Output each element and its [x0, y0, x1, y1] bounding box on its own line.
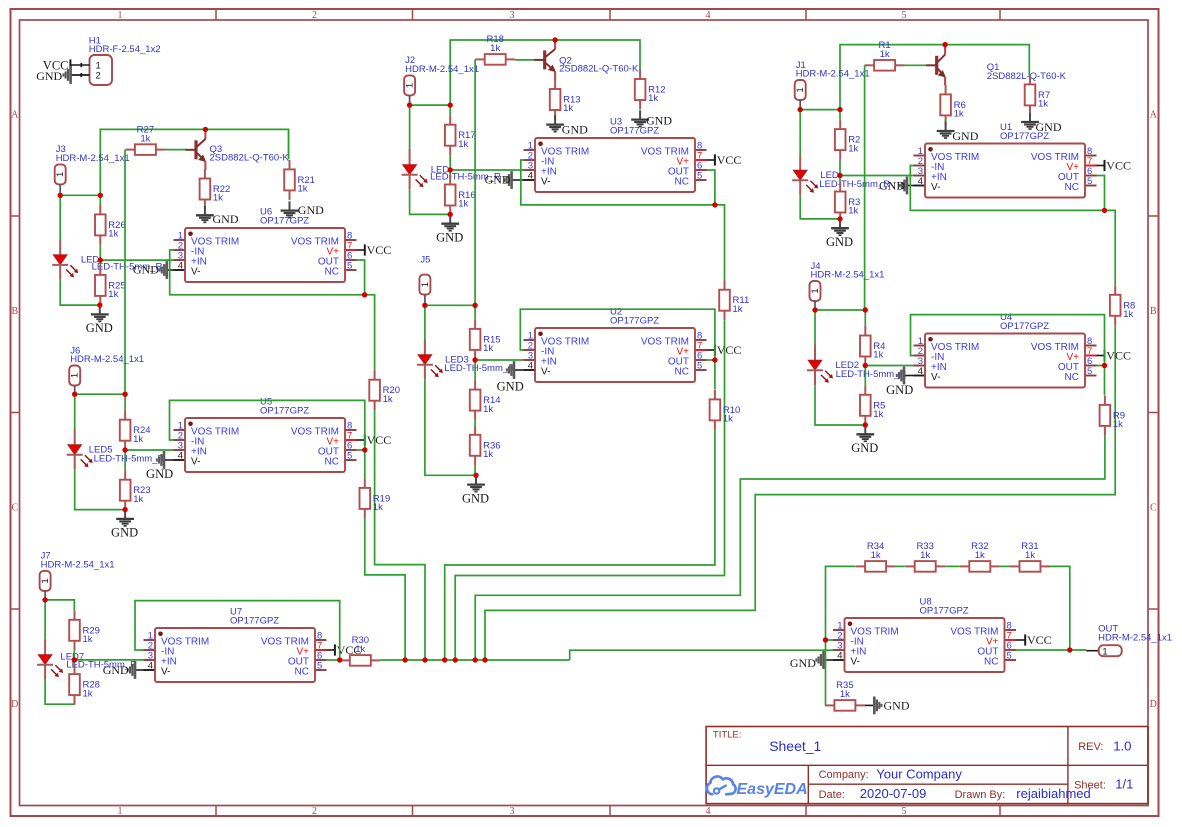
svg-text:5: 5 — [902, 806, 907, 817]
svg-text:HDR-M-2.54_1x1: HDR-M-2.54_1x1 — [70, 354, 144, 365]
resistor R31 — [1010, 541, 1050, 572]
svg-text:GND: GND — [886, 383, 913, 397]
svg-text:1: 1 — [118, 10, 123, 21]
svg-text:1k: 1k — [840, 689, 850, 700]
svg-text:1k: 1k — [213, 193, 223, 204]
GND symbol at H1 — [36, 66, 89, 84]
wire R27 to Q3 base — [165, 149, 186, 151]
svg-text:1: 1 — [810, 288, 821, 293]
resistor R26 — [95, 205, 126, 245]
svg-text:GND: GND — [86, 321, 113, 335]
wire R11 to bus — [455, 320, 724, 660]
resistor R30 — [340, 635, 380, 666]
svg-text:1k: 1k — [483, 404, 493, 415]
svg-text:2SD882L-Q-T60-K: 2SD882L-Q-T60-K — [987, 71, 1067, 82]
wire J2 row — [410, 104, 451, 106]
header J7 — [40, 551, 115, 591]
wire J1 row — [800, 109, 840, 111]
wire U1 out to R8 — [1105, 210, 1116, 285]
svg-text:V-: V- — [191, 457, 200, 468]
wire LED3 cathode loop — [425, 380, 476, 476]
wire R24 to LED5 junction gap — [124, 450, 126, 470]
svg-text:1: 1 — [118, 806, 123, 817]
svg-text:5: 5 — [347, 261, 352, 272]
node rail-Q1 collector junction — [942, 42, 947, 47]
wire R35 from pin2 — [825, 640, 827, 705]
svg-text:1k: 1k — [648, 93, 658, 104]
svg-text:GND: GND — [952, 129, 978, 143]
svg-text:HDR-M-2.54_1x1: HDR-M-2.54_1x1 — [405, 64, 479, 75]
svg-text:5: 5 — [1007, 651, 1012, 662]
company text — [819, 766, 963, 781]
wire R17 top — [449, 105, 451, 115]
wire LED6 anode — [59, 195, 61, 239]
svg-text:OP177GPZ: OP177GPZ — [230, 616, 279, 627]
VCC at U8 pin 7 — [1016, 633, 1052, 647]
svg-text:1k: 1k — [1025, 550, 1035, 561]
node U2 out junction — [712, 357, 717, 362]
svg-text:NC: NC — [325, 267, 339, 278]
transistor Q1 — [926, 45, 1066, 86]
resistor R17 — [445, 115, 476, 155]
node bus junction 5 — [473, 657, 478, 662]
svg-text:HDR-M-2.54_1x1: HDR-M-2.54_1x1 — [796, 69, 870, 80]
wire chain right leg to U8 out — [1050, 566, 1070, 650]
node LED5 junction — [122, 447, 127, 452]
svg-text:V-: V- — [161, 667, 170, 678]
sheet text — [1074, 777, 1133, 792]
wire U3 out to R11 — [715, 205, 725, 280]
svg-text:4: 4 — [918, 176, 923, 187]
svg-text:1: 1 — [55, 172, 66, 177]
node J6 junction — [72, 392, 77, 397]
svg-text:GND: GND — [884, 698, 910, 712]
node bus junction 4 — [453, 657, 458, 662]
ground below R7 — [1021, 113, 1062, 134]
svg-text:rejaibiahmed: rejaibiahmed — [1016, 786, 1090, 801]
svg-text:4: 4 — [706, 806, 711, 817]
wire LED7 junction to R28 — [73, 660, 75, 665]
wire R29 to LED7 junction — [73, 650, 75, 660]
svg-text:5: 5 — [1087, 366, 1092, 377]
wire J3 to R26 — [99, 195, 101, 205]
wire U8 out — [1016, 649, 1086, 651]
node bus junction 2 — [422, 657, 427, 662]
ground below R13 — [546, 115, 588, 136]
svg-text:1k: 1k — [373, 502, 383, 513]
svg-text:D: D — [11, 699, 18, 710]
resistor R10 — [710, 390, 741, 430]
wire J5 row — [425, 304, 475, 306]
svg-text:1k: 1k — [871, 550, 881, 561]
svg-text:1k: 1k — [975, 550, 985, 561]
svg-text:1: 1 — [405, 83, 416, 88]
svg-text:4: 4 — [837, 651, 842, 662]
wire U7 feedback — [135, 601, 340, 660]
resistor R27 — [125, 124, 165, 155]
svg-text:1k: 1k — [873, 409, 883, 420]
svg-text:VCC: VCC — [717, 343, 742, 357]
svg-text:NC: NC — [984, 657, 998, 668]
wire LED2 anode — [814, 310, 816, 345]
svg-text:VCC: VCC — [1027, 633, 1052, 647]
svg-text:GND: GND — [133, 263, 159, 277]
wire J6 pin — [74, 386, 76, 395]
ground below R36 — [462, 475, 489, 505]
wire J4 pin — [814, 301, 816, 310]
svg-text:OP177GPZ: OP177GPZ — [920, 606, 969, 617]
svg-text:5: 5 — [697, 171, 702, 182]
svg-text:1k: 1k — [383, 394, 393, 405]
wire U4 feedback — [911, 315, 1105, 366]
wire R36 to bottom junction — [474, 465, 477, 475]
wire U8 pin2 — [826, 639, 834, 641]
wire LED1 cathode loop — [800, 195, 840, 219]
frame column ticks top — [216, 9, 1000, 20]
wire LED4 cathode loop — [410, 190, 451, 215]
wire LED1 anode — [799, 110, 801, 155]
svg-text:5: 5 — [1087, 176, 1092, 187]
svg-text:1.0: 1.0 — [1113, 738, 1131, 753]
wire LED4 junction to U3 pin3 — [450, 169, 523, 171]
wire J5 pin — [424, 295, 426, 306]
wire J2 pin — [409, 95, 411, 105]
svg-text:NC: NC — [1065, 182, 1079, 193]
svg-text:1k: 1k — [954, 109, 964, 120]
op-amp U6 — [174, 206, 357, 282]
svg-text:VCC: VCC — [1106, 159, 1131, 173]
resistor R14 — [470, 380, 501, 420]
op-amp U8 — [833, 596, 1016, 672]
svg-text:3: 3 — [510, 10, 515, 21]
VCC at U2 pin 7 — [707, 343, 742, 357]
title block frame — [706, 727, 1148, 804]
svg-text:Company:: Company: — [819, 769, 869, 781]
frame row ticks left — [11, 216, 20, 609]
svg-text:HDR-F-2.54_1x2: HDR-F-2.54_1x2 — [89, 44, 161, 55]
svg-text:VCC: VCC — [717, 153, 742, 167]
wire R17 to LED4 junction — [449, 155, 451, 170]
svg-text:B: B — [11, 306, 18, 317]
resistor R35 — [825, 680, 865, 711]
ground at U1 pin 4 — [879, 177, 914, 195]
svg-text:GND: GND — [851, 441, 878, 455]
wire R6 to ground — [945, 120, 947, 126]
svg-text:1: 1 — [70, 373, 81, 378]
header J5 — [419, 254, 431, 294]
node J5 R15 junction — [472, 303, 477, 308]
ground at U4 pin 4 — [886, 367, 913, 397]
wire LED6 junction to U6 pin3 — [100, 259, 173, 261]
LED LED4 — [402, 149, 501, 190]
svg-text:OP177GPZ: OP177GPZ — [610, 126, 659, 137]
wire LED2 junction to U4 pin3 — [865, 365, 913, 367]
svg-text:1k: 1k — [848, 206, 858, 217]
node J7 junction — [42, 597, 47, 602]
op-amp U3 — [524, 116, 707, 192]
svg-text:GND: GND — [462, 491, 489, 505]
svg-text:1: 1 — [420, 282, 431, 287]
node J1 junction — [798, 107, 803, 112]
ground below R6 — [937, 122, 979, 143]
wire R32 to R31 — [1000, 565, 1010, 567]
wire J7 to R29 — [45, 600, 74, 610]
wire R14 to R36 — [474, 420, 476, 425]
svg-text:NC: NC — [675, 177, 689, 188]
wire R34 to R33 — [896, 565, 905, 567]
wire U8 feedback chain left leg — [826, 566, 856, 640]
frame column ticks bottom — [216, 806, 1000, 817]
svg-text:1k: 1k — [723, 414, 733, 425]
svg-text:1k: 1k — [133, 494, 143, 505]
svg-text:V-: V- — [931, 182, 940, 193]
LED LED3 — [417, 339, 515, 380]
wire U6 out to R20 chain — [365, 295, 375, 370]
svg-text:1k: 1k — [83, 634, 93, 645]
op-amp U4 — [914, 312, 1097, 388]
svg-text:OP177GPZ: OP177GPZ — [1000, 321, 1049, 332]
resistor R12 — [635, 70, 666, 110]
svg-text:OP177GPZ: OP177GPZ — [260, 406, 309, 417]
svg-text:LED-TH-5mm_R: LED-TH-5mm_R — [94, 454, 165, 465]
ground at U3 pin 4 — [485, 171, 524, 189]
node R25 bottom junction — [97, 302, 102, 307]
rev text — [1078, 738, 1131, 753]
svg-text:D: D — [1150, 699, 1157, 710]
svg-text:3: 3 — [510, 806, 515, 817]
wire U3 feedback — [521, 160, 715, 205]
LED LED7 — [37, 639, 137, 680]
svg-text:1: 1 — [1102, 646, 1107, 657]
ground below R16 — [436, 214, 463, 244]
node J3 rail junction — [98, 193, 103, 198]
op-amp U7 — [144, 606, 327, 682]
transistor Q3 — [186, 129, 290, 169]
resistor R24 — [120, 410, 151, 450]
svg-text:1k: 1k — [848, 143, 858, 154]
wire U4 out to R9 — [1104, 366, 1106, 395]
svg-text:2: 2 — [96, 71, 101, 82]
svg-text:NC: NC — [675, 367, 689, 378]
node rail-Q2 collector junction — [552, 37, 557, 42]
node R5 bottom junction — [863, 422, 868, 427]
svg-text:1k: 1k — [880, 49, 890, 60]
node U8 out junction — [1067, 647, 1072, 652]
svg-text:VCC: VCC — [367, 433, 392, 447]
title text — [713, 729, 822, 754]
wire U2 feedback — [520, 309, 715, 360]
node J1 rail junction — [837, 107, 842, 112]
svg-text:1k: 1k — [458, 139, 468, 150]
svg-text:Sheet_1: Sheet_1 — [769, 738, 821, 754]
wire LED5 cathode loop — [75, 470, 125, 510]
svg-text:GND: GND — [790, 656, 816, 670]
resistor R6 — [940, 85, 965, 125]
resistor R36 — [470, 425, 501, 465]
svg-text:GND: GND — [497, 379, 524, 393]
wire R15 top — [474, 305, 476, 319]
wire LED4 anode — [409, 105, 411, 149]
VCC at U3 pin 7 — [707, 153, 742, 167]
resistor R22 — [200, 169, 231, 209]
resistor R5 — [860, 385, 885, 425]
resistor R7 — [1025, 75, 1050, 115]
wire top rail left block — [100, 129, 288, 195]
header J4 — [810, 261, 885, 301]
svg-text:1k: 1k — [458, 199, 468, 210]
svg-text:B: B — [1150, 306, 1157, 317]
svg-text:GND: GND — [879, 178, 905, 192]
wire R8 to bus — [485, 325, 1115, 660]
svg-text:V-: V- — [931, 372, 940, 383]
node U4 out junction — [1102, 363, 1107, 368]
svg-text:NC: NC — [325, 457, 339, 468]
wire U1 feedback — [910, 166, 1104, 211]
VCC at U6 pin 7 — [357, 243, 392, 257]
wire R26 to LED6 junction — [99, 245, 101, 260]
VCC at U7 pin 7 — [327, 643, 362, 657]
svg-text:C: C — [11, 503, 18, 514]
node LED7 junction — [72, 657, 77, 662]
svg-text:5: 5 — [902, 10, 907, 21]
svg-text:OP177GPZ: OP177GPZ — [1000, 131, 1049, 142]
wire top rail mid block — [450, 40, 640, 105]
wire R1 to Q1 base — [905, 64, 928, 66]
node R16 bottom junction — [448, 212, 453, 217]
svg-text:4: 4 — [148, 661, 153, 672]
svg-text:1k: 1k — [1123, 309, 1133, 320]
svg-text:LED-TH-5mm_R: LED-TH-5mm_R — [444, 363, 515, 374]
header H1 — [89, 36, 161, 86]
svg-text:HDR-M-2.54_1x1: HDR-M-2.54_1x1 — [811, 270, 885, 281]
header J1 — [795, 60, 870, 100]
wire R10 to bus — [445, 430, 715, 660]
VCC at U1 pin 7 — [1097, 159, 1131, 173]
node R36 bottom junction — [473, 473, 478, 478]
node U8 pin2 junction — [823, 637, 828, 642]
svg-text:2020-07-09: 2020-07-09 — [860, 786, 927, 801]
resistor R32 — [960, 541, 1000, 572]
resistor R16 — [445, 175, 476, 215]
wire LED5 junction to U5 pin3 — [125, 449, 173, 451]
wire LED7 anode — [44, 600, 46, 639]
svg-text:2SD882L-Q-T60-K: 2SD882L-Q-T60-K — [210, 153, 290, 164]
node LED4 junction — [448, 167, 453, 172]
ground at U6 pin 4 — [133, 261, 174, 279]
wire bus to U8 pin3 — [570, 650, 833, 660]
wire LED3 junction to U2 pin3 — [475, 359, 523, 361]
wire R2 to LED1 junction — [839, 160, 841, 176]
VCC symbol at H1 — [43, 58, 71, 72]
node J4 R4 junction — [863, 307, 868, 312]
node U5 out junction — [362, 447, 367, 452]
wire J3 pin — [59, 184, 61, 195]
svg-text:2: 2 — [312, 10, 317, 21]
wire R2 top — [839, 110, 841, 120]
ground at U2 pin 4 — [497, 361, 524, 393]
svg-text:1k: 1k — [1113, 419, 1123, 430]
svg-text:4: 4 — [706, 10, 711, 21]
svg-text:5: 5 — [347, 451, 352, 462]
svg-text:HDR-M-2.54_1x1: HDR-M-2.54_1x1 — [1098, 633, 1172, 644]
svg-text:HDR-M-2.54_1x1: HDR-M-2.54_1x1 — [41, 560, 115, 571]
svg-text:2: 2 — [312, 806, 317, 817]
svg-text:1k: 1k — [108, 289, 118, 300]
wire J1 pin — [799, 100, 801, 110]
node R3 bottom junction — [837, 216, 842, 221]
resistor R25 — [95, 265, 126, 305]
wire LED7 cathode loop — [45, 680, 74, 705]
date text — [819, 786, 1091, 801]
svg-text:1k: 1k — [563, 103, 573, 114]
svg-text:1k: 1k — [483, 449, 493, 460]
wire LED2 junction to R5 — [864, 366, 866, 386]
VCC at U5 pin 7 — [357, 433, 392, 447]
wire R13 to ground — [554, 114, 556, 120]
node R23 bottom junction — [122, 507, 127, 512]
svg-text:Drawn By:: Drawn By: — [955, 789, 1006, 801]
svg-text:1k: 1k — [133, 434, 143, 445]
header OUT — [1086, 623, 1172, 657]
op-amp U2 — [524, 306, 707, 382]
ground below R21 — [281, 201, 325, 217]
resistor R15 — [470, 319, 501, 359]
LED LED2 — [807, 345, 906, 386]
wire LED3 anode — [424, 305, 426, 339]
header J3 — [55, 144, 130, 184]
resistor R18 — [475, 34, 515, 65]
frame row labels — [11, 110, 1158, 711]
wire LED3 junction to R14 — [474, 360, 476, 380]
svg-text:5: 5 — [317, 661, 322, 672]
node J2 junction — [407, 102, 412, 107]
ground at U8 pin 4 — [790, 651, 833, 670]
svg-text:GND: GND — [485, 172, 511, 186]
node U7 out junction — [337, 657, 342, 662]
resistor R11 — [719, 280, 749, 320]
ground below R12 — [631, 110, 672, 127]
resistor R19 — [360, 478, 391, 518]
wire R18 column to J5 row — [474, 59, 476, 305]
wire LED6 junction to R25 — [99, 260, 101, 265]
node bus junction 6 — [482, 657, 487, 662]
node J5 junction — [422, 303, 427, 308]
node rail-Q3 collector junction — [203, 127, 208, 132]
ground at R35 — [865, 697, 910, 715]
node LED3 junction — [472, 357, 477, 362]
svg-text:1/1: 1/1 — [1115, 777, 1133, 792]
H1 pin 1 wire — [70, 63, 89, 67]
svg-text:TITLE:: TITLE: — [713, 729, 742, 740]
VCC at U4 pin 7 — [1097, 349, 1131, 363]
svg-text:NC: NC — [295, 667, 309, 678]
svg-text:A: A — [11, 110, 19, 121]
resistor R23 — [120, 470, 151, 510]
node LED6 junction — [98, 257, 103, 262]
svg-text:EasyEDA: EasyEDA — [737, 781, 808, 798]
svg-text:GND: GND — [436, 230, 463, 244]
wire rail to R21 — [288, 129, 290, 159]
frame row ticks right — [1148, 216, 1159, 609]
LED LED5 — [67, 429, 165, 470]
svg-text:GND: GND — [103, 663, 129, 677]
header J6 — [69, 345, 144, 385]
svg-text:VCC: VCC — [1106, 349, 1131, 363]
svg-text:LED-TH-5mm_R: LED-TH-5mm_R — [836, 369, 907, 380]
svg-text:V-: V- — [191, 267, 200, 278]
wire LED1 junction to U1 pin3 — [840, 175, 914, 177]
wire R19 to bus — [365, 518, 405, 660]
